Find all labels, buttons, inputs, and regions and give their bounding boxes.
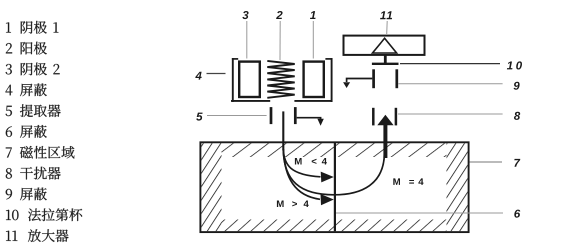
interferer 8 left bar [372, 108, 375, 126]
cathode 3 box [239, 62, 260, 97]
amplifier box U11 [344, 36, 425, 55]
leader to label 6 [336, 212, 503, 214]
extractor wire with down arrow [297, 118, 324, 126]
leader from label 11 [386, 21, 389, 34]
shield 4 bottom left segment [231, 100, 270, 102]
ion beam line from extractor [282, 111, 284, 150]
legend line 3: cathode 2 (阴极 2) [6, 63, 60, 76]
trajectory M=4 arc [283, 149, 384, 195]
leader to label 7 [470, 161, 503, 163]
legend line 7: magnetic region (磁性区域) [6, 146, 75, 159]
legend line 9: shield (屏蔽) [6, 188, 47, 201]
shield 9 left bar [372, 69, 375, 88]
trajectory M>4 arc [283, 150, 334, 205]
shield 4 bottom right segment [294, 100, 332, 102]
label 4 (shield) [195, 72, 201, 80]
legend line 11: amplifier (放大器) [6, 229, 69, 242]
faraday cup stem [384, 55, 387, 63]
leader from label 4 [207, 73, 226, 75]
leader to label 10 [400, 63, 500, 65]
shield 4 right wall [325, 58, 332, 102]
ion beam up arrow into interferer 8 [377, 115, 393, 158]
amplifier triangle [373, 38, 397, 53]
label 5 (extractor) [196, 113, 202, 121]
label 3 (cathode 2) [242, 11, 248, 19]
anode 2 filament zigzag [267, 61, 294, 98]
shield 9 wire with down arrow [343, 79, 372, 89]
magnet yoke hatched region 7 [200, 142, 468, 232]
legend line 2: anode (阳极) [6, 42, 47, 55]
label 11 (amplifier) [380, 11, 392, 19]
legend line 4: shield (屏蔽) [6, 84, 47, 97]
leader to label 8 [398, 113, 503, 115]
legend line 1: cathode 1 (阴极 1) [6, 21, 58, 34]
interferer 8 right bar [395, 108, 398, 126]
label 1 (cathode 1) [310, 11, 316, 19]
label 6 (septum shield) [514, 210, 520, 218]
faraday cup plate 10 [372, 63, 399, 65]
legend line 5: extractor (提取器) [6, 104, 61, 117]
cathode 1 box [304, 62, 324, 97]
shield 4 left wall [232, 58, 238, 102]
label 8 (interferer) [514, 112, 520, 120]
text M>4 [277, 201, 309, 208]
text M<4 [295, 158, 327, 165]
legend line 10: Faraday cup (法拉第杯) [6, 208, 82, 221]
legend line 6: shield (屏蔽) [6, 125, 47, 138]
text M=4 [393, 178, 423, 185]
legend line 8: interferer (干扰器) [6, 167, 61, 180]
leader from label 5 [207, 115, 267, 117]
leader to label 9 [398, 83, 502, 85]
label 2 (anode) [276, 11, 283, 19]
septum shield 6 [334, 143, 336, 232]
leader from label 3 [246, 21, 248, 59]
label 7 (magnetic region) [514, 159, 520, 167]
label 10 (faraday cup) [507, 61, 522, 69]
leader from label 1 [312, 21, 314, 59]
trajectory M<4 arc [283, 149, 334, 182]
leader from label 2 [279, 21, 281, 60]
label 9 (shield) [514, 82, 520, 90]
extractor 5 right bar [294, 107, 297, 124]
shield 9 right bar [395, 69, 398, 88]
extractor 5 left bar [270, 107, 273, 124]
